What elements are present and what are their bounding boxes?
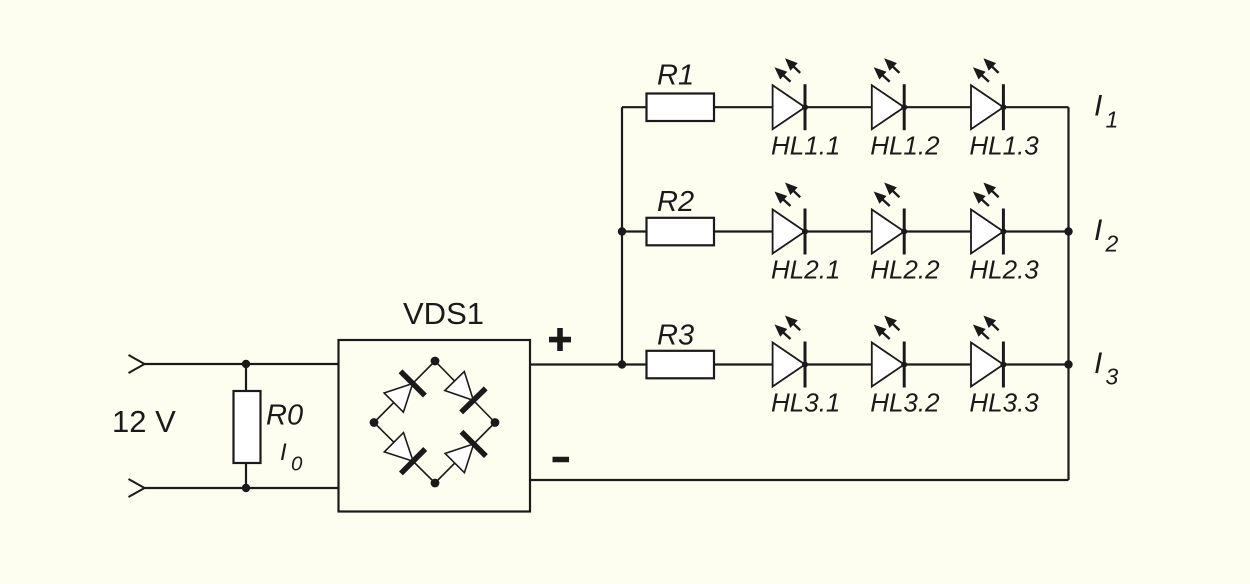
svg-text:R3: R3 [657, 320, 694, 352]
svg-text:3: 3 [1106, 364, 1119, 390]
svg-text:HL3.3: HL3.3 [969, 388, 1039, 418]
svg-text:1: 1 [1106, 106, 1119, 132]
svg-text:VDS1: VDS1 [403, 296, 484, 331]
svg-text:12 V: 12 V [112, 404, 176, 439]
svg-text:HL1.3: HL1.3 [969, 130, 1039, 160]
svg-text:HL1.2: HL1.2 [870, 130, 940, 160]
svg-text:I: I [280, 439, 287, 466]
svg-text:HL2.2: HL2.2 [870, 255, 940, 285]
svg-text:I: I [1094, 90, 1102, 123]
svg-text:HL3.1: HL3.1 [771, 388, 840, 418]
svg-text:0: 0 [291, 453, 303, 476]
svg-text:R2: R2 [657, 186, 694, 218]
svg-text:HL1.1: HL1.1 [771, 130, 840, 160]
svg-text:I: I [1094, 347, 1102, 380]
svg-text:R1: R1 [657, 60, 694, 92]
svg-text:2: 2 [1105, 231, 1119, 257]
svg-text:HL3.2: HL3.2 [870, 388, 940, 418]
svg-text:HL2.3: HL2.3 [969, 255, 1039, 285]
svg-text:HL2.1: HL2.1 [771, 255, 840, 285]
svg-text:R0: R0 [266, 400, 303, 432]
svg-text:I: I [1094, 214, 1102, 247]
